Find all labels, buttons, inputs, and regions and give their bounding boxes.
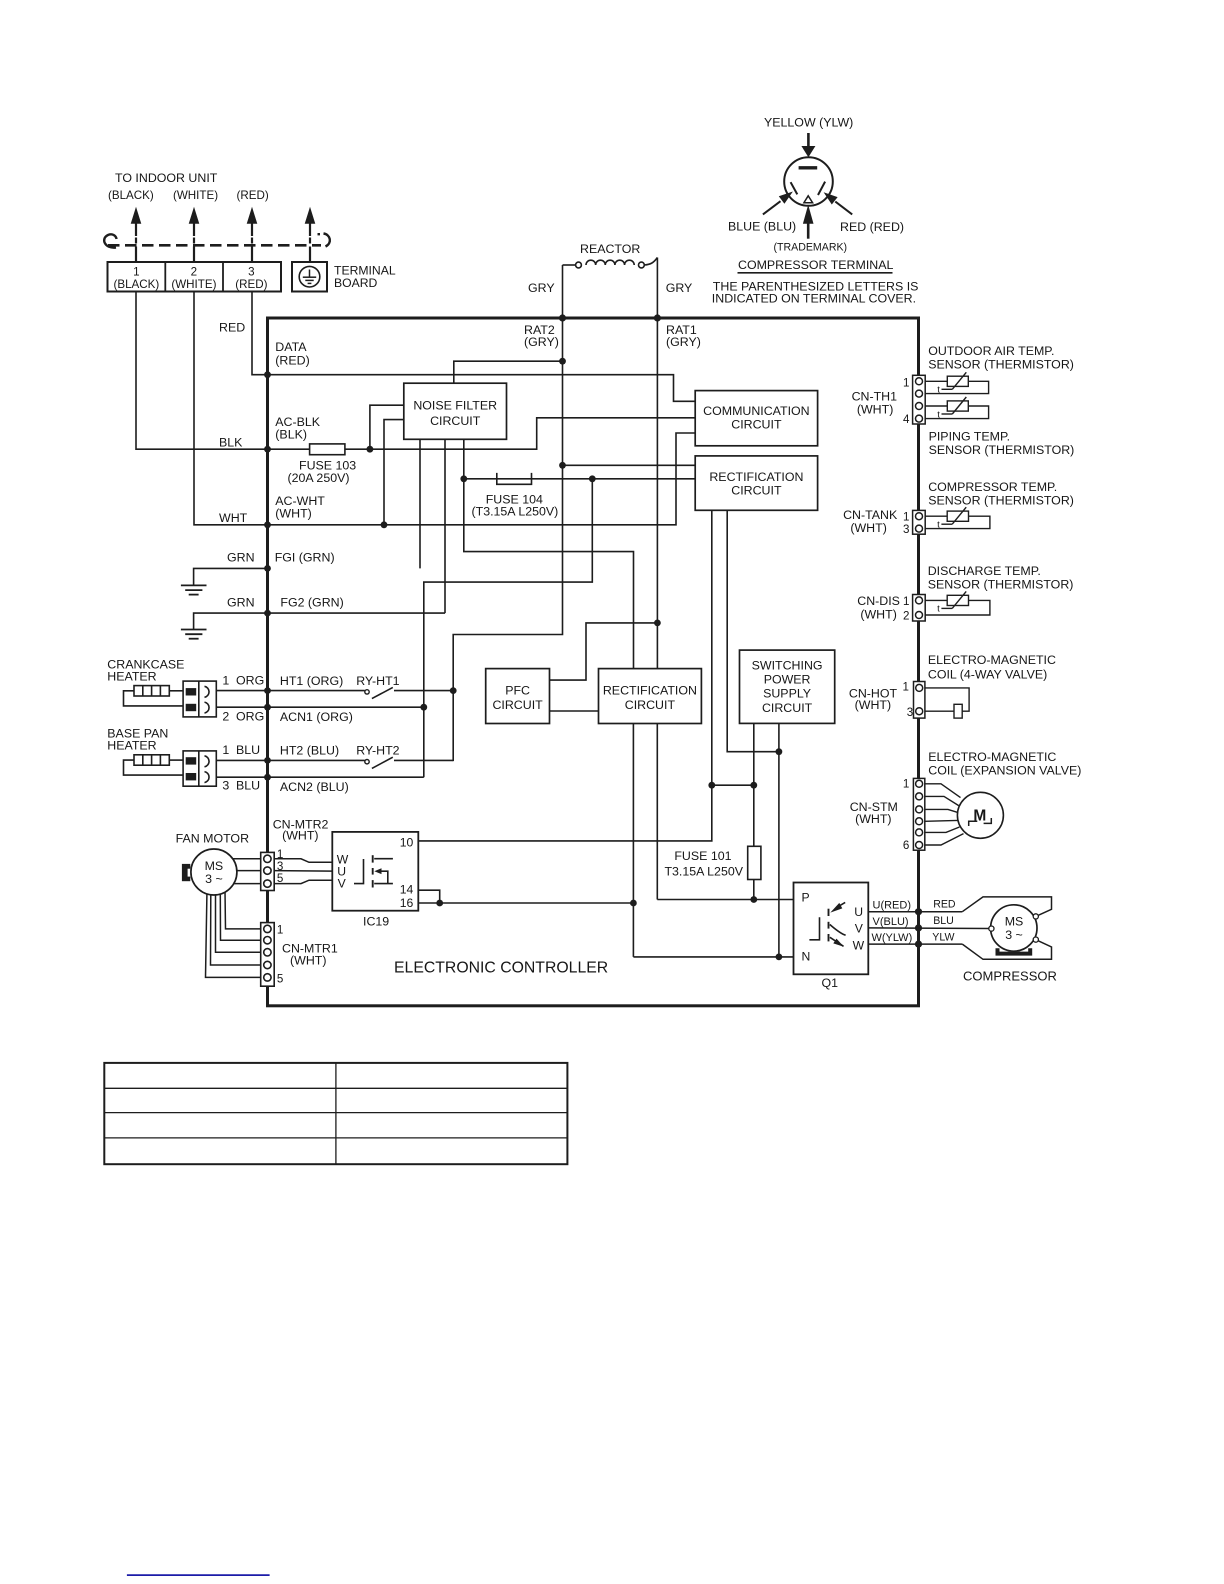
svg-text:FGI (GRN): FGI (GRN) xyxy=(275,551,335,565)
arrow yellow (top) xyxy=(801,133,815,157)
svg-text:3: 3 xyxy=(907,706,913,719)
node ACN2 at box edge xyxy=(264,774,271,781)
svg-text:SUPPLY: SUPPLY xyxy=(763,687,811,701)
svg-text:(WHT): (WHT) xyxy=(855,812,891,826)
svg-text:BOARD: BOARD xyxy=(334,276,378,290)
svg-text:(BLACK): (BLACK) xyxy=(108,189,154,202)
node V at box edge xyxy=(915,924,922,931)
wire P line to Q1 xyxy=(657,899,793,901)
connector CN-TANK xyxy=(913,510,926,534)
svg-text:ELECTRO-MAGNETIC: ELECTRO-MAGNETIC xyxy=(928,653,1056,667)
wire branch 711 to fuse101 leg xyxy=(712,784,754,786)
expansion valve motor M xyxy=(957,792,1003,838)
svg-text:(WHT): (WHT) xyxy=(857,403,893,417)
noise filter circuit box xyxy=(404,383,507,439)
svg-text:3 ~: 3 ~ xyxy=(1005,928,1023,942)
base pan heater element xyxy=(134,755,169,765)
svg-text:BLU: BLU xyxy=(236,779,260,793)
node switching leg2 join xyxy=(776,748,783,755)
svg-text:WHT: WHT xyxy=(219,511,248,525)
svg-text:REACTOR: REACTOR xyxy=(580,242,640,256)
wire rect(upper) pin to IC19 pin10 xyxy=(418,510,712,841)
svg-text:ORG: ORG xyxy=(236,674,264,688)
svg-text:HT1 (ORG): HT1 (ORG) xyxy=(280,674,343,688)
expansion valve stepper wires xyxy=(925,784,964,845)
svg-text:V: V xyxy=(338,877,347,891)
Q1 transistor arrow down xyxy=(830,937,844,946)
wire ACN2 xyxy=(268,776,424,778)
svg-text:YELLOW (YLW): YELLOW (YLW) xyxy=(764,116,853,130)
svg-text:(WHITE): (WHITE) xyxy=(173,189,218,202)
wire DATA(RED) to communication circuit xyxy=(268,375,696,402)
svg-text:SENSOR (THERMISTOR): SENSOR (THERMISTOR) xyxy=(928,357,1074,371)
svg-text:CIRCUIT: CIRCUIT xyxy=(430,414,481,428)
wire W(YLW) xyxy=(868,943,962,945)
relay contact RY-HT1 xyxy=(365,690,369,694)
svg-text:14: 14 xyxy=(400,883,414,897)
crankcase heater wires xyxy=(169,690,183,692)
reactor right lead curve xyxy=(644,258,657,266)
compressor mount bracket xyxy=(998,948,1031,953)
connector CN-MTR1 xyxy=(261,923,275,987)
svg-text:RECTIFICATION: RECTIFICATION xyxy=(709,470,803,484)
wire RAT2 to rectification circuit (top right) xyxy=(563,464,696,466)
node IC19 pin14 join xyxy=(436,900,443,907)
wire noise filter top to RAT2 xyxy=(454,361,563,383)
svg-text:2: 2 xyxy=(222,710,229,724)
svg-text:(T3.15A L250V): (T3.15A L250V) xyxy=(472,505,559,519)
svg-text:DISCHARGE TEMP.: DISCHARGE TEMP. xyxy=(928,564,1041,578)
svg-text:RY-HT1: RY-HT1 xyxy=(356,674,399,688)
svg-text:N: N xyxy=(802,949,811,963)
svg-text:DATA: DATA xyxy=(275,340,307,354)
wire rect(upper) pin2 to switching supply leg xyxy=(727,510,779,751)
svg-text:HEATER: HEATER xyxy=(107,669,156,683)
node noise filter pin3 / fuse104 line xyxy=(460,475,467,482)
wire rectification bottom pin1 to N line xyxy=(632,724,634,957)
svg-text:ELECTRONIC CONTROLLER: ELECTRONIC CONTROLLER xyxy=(394,959,608,976)
svg-text:W(YLW): W(YLW) xyxy=(872,932,913,944)
arrow red (right) xyxy=(824,192,853,214)
node DATA at box edge xyxy=(264,371,271,378)
wire HT2 to relay RY-HT2 xyxy=(268,759,365,761)
svg-text:1: 1 xyxy=(222,743,229,757)
connector CN-DIS xyxy=(913,595,926,622)
labels top-left xyxy=(108,171,396,609)
node RAT1 top xyxy=(654,314,661,321)
svg-text:COMPRESSOR TEMP.: COMPRESSOR TEMP. xyxy=(928,480,1057,494)
svg-text:SENSOR (THERMISTOR): SENSOR (THERMISTOR) xyxy=(928,494,1074,508)
svg-text:PIPING TEMP.: PIPING TEMP. xyxy=(929,429,1010,443)
svg-text:COMPRESSOR TERMINAL: COMPRESSOR TERMINAL xyxy=(738,258,893,272)
ground terminal cell xyxy=(292,262,327,292)
node fuse103 out xyxy=(367,446,374,453)
svg-text:10: 10 xyxy=(400,835,414,849)
svg-text:1: 1 xyxy=(133,266,139,279)
terminal board 1-2-3 xyxy=(108,262,282,292)
connector CN-HOT xyxy=(914,682,925,719)
svg-text:5: 5 xyxy=(277,872,283,885)
heater labels xyxy=(107,657,399,794)
svg-text:BLUE (BLU): BLUE (BLU) xyxy=(728,220,796,234)
svg-text:1: 1 xyxy=(903,681,909,694)
svg-text:Q1: Q1 xyxy=(822,976,839,990)
svg-text:2: 2 xyxy=(903,610,909,623)
crankcase heater element xyxy=(134,686,169,696)
svg-text:GRY: GRY xyxy=(528,281,555,295)
svg-text:1: 1 xyxy=(903,777,909,790)
wire HT1 to relay RY-HT1 xyxy=(268,690,365,692)
relay contact RY-HT2 xyxy=(365,760,369,764)
wire noise filter pin1 to FGI xyxy=(419,439,421,568)
svg-text:RED: RED xyxy=(933,899,956,911)
svg-text:MS: MS xyxy=(1005,915,1024,929)
svg-text:(WHITE): (WHITE) xyxy=(171,278,216,291)
svg-text:IC19: IC19 xyxy=(363,914,389,928)
wire noise filter pin2 to FG2 xyxy=(444,439,446,613)
svg-text:SENSOR (THERMISTOR): SENSOR (THERMISTOR) xyxy=(928,577,1074,591)
node FGI at box edge xyxy=(264,565,271,572)
svg-text:COMPRESSOR: COMPRESSOR xyxy=(963,969,1057,984)
svg-text:U(RED): U(RED) xyxy=(873,900,912,912)
wire noise filter lower stub to WHT xyxy=(384,420,404,525)
svg-text:t: t xyxy=(937,520,940,531)
arrow blue (left) xyxy=(763,192,793,215)
fuse F104 bracket xyxy=(497,473,532,484)
Q1 gate ticks xyxy=(828,909,830,916)
wire switching supply leg2 to N line xyxy=(778,723,780,957)
wire fuse104 branch to heaters ACN xyxy=(424,479,593,777)
svg-text:SWITCHING: SWITCHING xyxy=(752,658,823,672)
svg-text:V: V xyxy=(855,922,864,936)
node rect pin to fuse101 branch left xyxy=(708,782,715,789)
arrow at ground terminal xyxy=(306,210,314,263)
svg-text:5: 5 xyxy=(277,973,283,986)
svg-text:t: t xyxy=(937,409,940,420)
rectification circuit box (upper right) xyxy=(695,456,817,510)
crankcase heater connector xyxy=(183,681,216,717)
svg-text:INDICATED ON TERMINAL COVER.: INDICATED ON TERMINAL COVER. xyxy=(712,292,916,306)
svg-text:ORG: ORG xyxy=(236,710,264,724)
wire terminal1 BLACK to box xyxy=(136,292,268,450)
node ACN1 branch xyxy=(420,704,427,711)
arrow to indoor unit 2 xyxy=(190,210,198,263)
svg-text:2: 2 xyxy=(191,266,197,279)
svg-text:(WHT): (WHT) xyxy=(290,954,326,968)
dashed cable loop line xyxy=(104,234,330,248)
svg-text:HT2 (BLU): HT2 (BLU) xyxy=(280,744,339,758)
wire BLK continue to communication circuit xyxy=(370,418,695,449)
svg-text:CIRCUIT: CIRCUIT xyxy=(731,483,782,497)
wire AC-BLK with FUSE 103 xyxy=(268,448,310,450)
svg-text:NOISE FILTER: NOISE FILTER xyxy=(413,398,497,412)
svg-text:t: t xyxy=(937,385,940,396)
node WHT at box edge xyxy=(264,521,271,528)
svg-text:CN-TH1: CN-TH1 xyxy=(852,390,898,404)
fan motor mount bracket xyxy=(182,864,190,881)
compressor housing path YLW xyxy=(962,941,1051,960)
svg-text:M: M xyxy=(973,808,986,825)
svg-text:3 ~: 3 ~ xyxy=(205,872,223,886)
svg-text:RECTIFICATION: RECTIFICATION xyxy=(603,683,697,697)
svg-text:(BLK): (BLK) xyxy=(275,427,307,441)
svg-text:(WHT): (WHT) xyxy=(855,698,891,712)
svg-text:3: 3 xyxy=(248,266,254,279)
wire ACN1 xyxy=(268,706,424,708)
connector CN-STM xyxy=(913,778,924,850)
fuse F103 body xyxy=(310,444,345,455)
svg-text:4: 4 xyxy=(903,413,910,426)
svg-text:HEATER: HEATER xyxy=(107,739,156,753)
svg-text:U: U xyxy=(854,905,863,919)
arrow trademark (bottom) xyxy=(803,205,814,239)
IC19 box xyxy=(332,832,418,911)
svg-text:3: 3 xyxy=(222,779,229,793)
svg-text:1: 1 xyxy=(903,595,909,608)
svg-text:GRN: GRN xyxy=(227,596,255,610)
wire ACN2 connector to box xyxy=(216,776,267,778)
compressor housing path RED xyxy=(962,897,1051,916)
wire V(BLU) xyxy=(868,927,988,930)
connector CN-TH1 xyxy=(913,375,926,424)
svg-text:6: 6 xyxy=(903,839,909,852)
svg-text:CIRCUIT: CIRCUIT xyxy=(625,698,676,712)
ground FGI xyxy=(181,585,207,594)
thermistor discharge temp (CN-DIS) xyxy=(925,591,990,615)
wire FGI with ground xyxy=(194,568,268,585)
IC19 labels xyxy=(337,835,414,910)
wire N line to Q1 xyxy=(633,956,793,958)
ELECTRONIC CONTROLLER label xyxy=(394,959,608,976)
node HT2 at box edge xyxy=(264,757,271,764)
svg-text:POWER: POWER xyxy=(764,673,811,687)
wire IC19 pin14 to pin16 line xyxy=(418,890,633,903)
svg-text:ELECTRO-MAGNETIC: ELECTRO-MAGNETIC xyxy=(928,750,1056,764)
wire FUSE104 line to rectification circuit xyxy=(464,478,695,480)
fuse F101 body xyxy=(748,846,761,879)
svg-text:CIRCUIT: CIRCUIT xyxy=(762,701,813,715)
wire terminal3 RED to box xyxy=(252,292,268,375)
fan motor wires to CN-MTR1 xyxy=(206,889,261,977)
svg-text:COMMUNICATION: COMMUNICATION xyxy=(703,404,809,418)
node RAT2 top xyxy=(559,314,566,321)
terminal mark left xyxy=(791,182,798,194)
wire HT1 connector to box xyxy=(216,690,267,692)
terminal mark Y (top bar) xyxy=(799,166,818,169)
svg-text:FG2 (GRN): FG2 (GRN) xyxy=(280,596,343,610)
Q1 diagonal middle xyxy=(830,925,846,936)
switching power supply circuit box xyxy=(740,650,835,723)
node BLK at box edge xyxy=(264,446,271,453)
thermistor piping temp (CN-TH1 3-4) xyxy=(925,397,988,419)
svg-text:BLK: BLK xyxy=(219,436,243,450)
svg-text:MS: MS xyxy=(205,859,224,873)
wire U(RED) xyxy=(868,911,962,913)
wire PFC to RAT1 xyxy=(550,623,658,680)
wire switching supply leg1 with FUSE 101 xyxy=(753,723,755,846)
node RAT2 noise filter xyxy=(559,358,566,365)
svg-text:W: W xyxy=(853,938,865,952)
node fuse104 branch xyxy=(589,475,596,482)
svg-text:PFC: PFC xyxy=(505,683,530,697)
node FG2 at box edge xyxy=(264,610,271,617)
svg-text:(GRY): (GRY) xyxy=(666,335,701,349)
wire IC19 pin16 line xyxy=(418,902,633,904)
svg-text:COIL (EXPANSION VALVE): COIL (EXPANSION VALVE) xyxy=(928,763,1081,777)
compressor terminal circle xyxy=(784,157,833,206)
Q1 transistor arrow up xyxy=(836,902,845,907)
wire ACN1 connector to box xyxy=(216,706,267,708)
node RAT1 PFC xyxy=(654,620,661,627)
4-way valve coil loop xyxy=(925,688,969,718)
svg-text:t: t xyxy=(937,604,940,615)
svg-text:(RED): (RED) xyxy=(235,278,267,291)
node ACN1 at box edge xyxy=(264,704,271,711)
svg-text:1: 1 xyxy=(222,674,229,688)
svg-text:(GRY): (GRY) xyxy=(524,335,559,349)
svg-text:(WHT): (WHT) xyxy=(850,521,886,535)
PFC circuit box xyxy=(486,669,550,724)
svg-text:(20A 250V): (20A 250V) xyxy=(288,471,350,485)
svg-text:SENSOR (THERMISTOR): SENSOR (THERMISTOR) xyxy=(929,443,1075,457)
svg-text:BLU: BLU xyxy=(933,915,954,927)
svg-text:(TRADEMARK): (TRADEMARK) xyxy=(774,241,848,253)
svg-text:1: 1 xyxy=(903,376,909,389)
wires Q1 U V W to compressor xyxy=(868,897,1051,959)
node WHT noise filter branch xyxy=(381,521,388,528)
node U at box edge xyxy=(915,908,922,915)
svg-text:GRY: GRY xyxy=(666,281,693,295)
svg-text:CN-TANK: CN-TANK xyxy=(843,508,898,522)
connector CN-MTR2 xyxy=(261,852,275,890)
svg-text:RY-HT2: RY-HT2 xyxy=(356,744,399,758)
wire FG2 with ground xyxy=(194,613,445,629)
node W at box edge xyxy=(915,941,922,948)
reactor coil humps xyxy=(586,260,634,265)
ground FG2 xyxy=(181,630,207,639)
svg-text:CN-DIS: CN-DIS xyxy=(857,594,900,608)
wire rectification bottom pin2 to P line xyxy=(656,724,658,900)
svg-text:3: 3 xyxy=(277,860,283,873)
wire RAT2 vertical down with jog to heater relays xyxy=(453,318,562,761)
Q1 internal bracket xyxy=(809,917,819,940)
svg-text:RED (RED): RED (RED) xyxy=(840,220,904,234)
wire BLK branch up to noise filter xyxy=(370,405,404,449)
svg-text:1: 1 xyxy=(277,923,283,936)
svg-text:(BLACK): (BLACK) xyxy=(114,278,160,291)
svg-text:FAN MOTOR: FAN MOTOR xyxy=(176,832,249,846)
svg-text:P: P xyxy=(802,891,810,905)
base pan heater connector xyxy=(183,751,216,786)
svg-text:3: 3 xyxy=(903,523,909,536)
svg-text:GRN: GRN xyxy=(227,551,255,565)
wire RAT1 vertical down to rectification circuit xyxy=(656,318,658,669)
fan motor wires to CN-MTR2 xyxy=(228,858,261,860)
trademark triangle xyxy=(804,196,813,203)
underline compressor terminal xyxy=(738,272,893,274)
svg-text:(WHT): (WHT) xyxy=(282,829,318,843)
thermistor compressor temp (CN-TANK) xyxy=(925,507,990,528)
wires CN-MTR2 to IC19 xyxy=(274,859,332,884)
wire terminal2 WHITE to box xyxy=(194,292,268,525)
svg-text:OUTDOOR AIR TEMP.: OUTDOOR AIR TEMP. xyxy=(928,344,1054,358)
svg-text:T3.15A L250V: T3.15A L250V xyxy=(664,864,743,878)
wire PFC to rectification xyxy=(550,710,599,712)
node pin16 to N riser xyxy=(630,900,637,907)
node P line fuse101 xyxy=(750,896,757,903)
node HT1 at box edge xyxy=(264,687,271,694)
svg-text:RED: RED xyxy=(219,321,245,335)
svg-text:COIL (4-WAY VALVE): COIL (4-WAY VALVE) xyxy=(928,668,1047,682)
svg-text:CIRCUIT: CIRCUIT xyxy=(492,698,543,712)
svg-text:CIRCUIT: CIRCUIT xyxy=(731,418,782,432)
arrow to indoor unit 3 xyxy=(248,210,256,263)
IC19 internal driver symbol xyxy=(354,855,393,887)
arrow to indoor unit 1 xyxy=(132,210,140,263)
node fuse101 top branch xyxy=(750,782,757,789)
wire HT2 connector to box xyxy=(216,759,267,761)
communication circuit box xyxy=(695,391,817,446)
svg-text:(RED): (RED) xyxy=(275,354,309,368)
terminal mark right xyxy=(818,182,825,195)
svg-text:16: 16 xyxy=(400,896,414,910)
svg-text:(RED): (RED) xyxy=(237,189,269,202)
wire AC-WHT to communication circuit xyxy=(268,433,696,525)
svg-text:(WHT): (WHT) xyxy=(860,608,896,622)
reactor left lead vertical xyxy=(562,265,564,318)
svg-text:1: 1 xyxy=(903,511,909,524)
wire noise filter pin3 down to rectification circuit xyxy=(464,439,634,668)
base pan heater wires xyxy=(169,759,183,761)
fan motor circle MS xyxy=(191,849,237,895)
node RAT2 rectification xyxy=(559,462,566,469)
rectification circuit box (middle) xyxy=(599,669,702,724)
svg-text:TO INDOOR UNIT: TO INDOOR UNIT xyxy=(115,171,218,185)
svg-text:ACN2 (BLU): ACN2 (BLU) xyxy=(280,780,349,794)
svg-text:BLU: BLU xyxy=(236,743,260,757)
svg-text:(WHT): (WHT) xyxy=(275,507,311,521)
svg-text:FUSE 101: FUSE 101 xyxy=(674,849,731,863)
footer link line xyxy=(127,1574,270,1576)
svg-text:ACN1 (ORG): ACN1 (ORG) xyxy=(280,710,353,724)
compressor terminal pins xyxy=(989,914,1039,942)
svg-text:V(BLU): V(BLU) xyxy=(873,916,909,928)
node N line switching leg xyxy=(776,954,783,961)
svg-text:YLW: YLW xyxy=(932,931,954,943)
compressor motor MS xyxy=(991,905,1037,951)
thermistor outdoor air (CN-TH1 1-2) xyxy=(925,372,988,393)
reactor terminal circles xyxy=(576,262,582,268)
node RY-HT1 out xyxy=(450,687,457,694)
